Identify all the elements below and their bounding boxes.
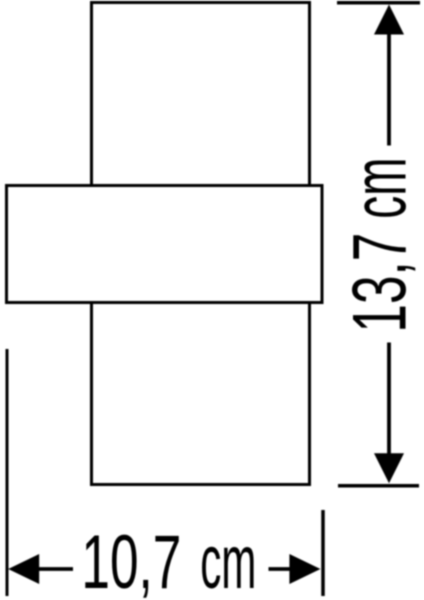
horizontal dimension line right segment xyxy=(269,567,291,571)
fixture body (tall rectangle) xyxy=(92,3,310,485)
extension line bottom right xyxy=(321,510,325,596)
arrowhead up xyxy=(374,5,404,35)
extension tick top right xyxy=(337,1,420,5)
vertical dimension line lower segment xyxy=(387,343,391,456)
arrowhead left xyxy=(8,554,39,584)
svg-text:10,7: 10,7 xyxy=(81,519,181,600)
horizontal dimension line left segment xyxy=(38,567,73,571)
svg-text:13,7: 13,7 xyxy=(336,233,422,333)
vertical dimension line upper segment xyxy=(387,32,391,146)
extension tick bottom right xyxy=(338,484,419,488)
extension line bottom left xyxy=(6,349,9,596)
svg-text:cm: cm xyxy=(338,158,423,219)
wall plate (wide middle rectangle) xyxy=(7,186,323,303)
svg-text:cm: cm xyxy=(200,520,256,600)
arrowhead down xyxy=(374,453,404,483)
arrowhead right xyxy=(289,554,320,584)
